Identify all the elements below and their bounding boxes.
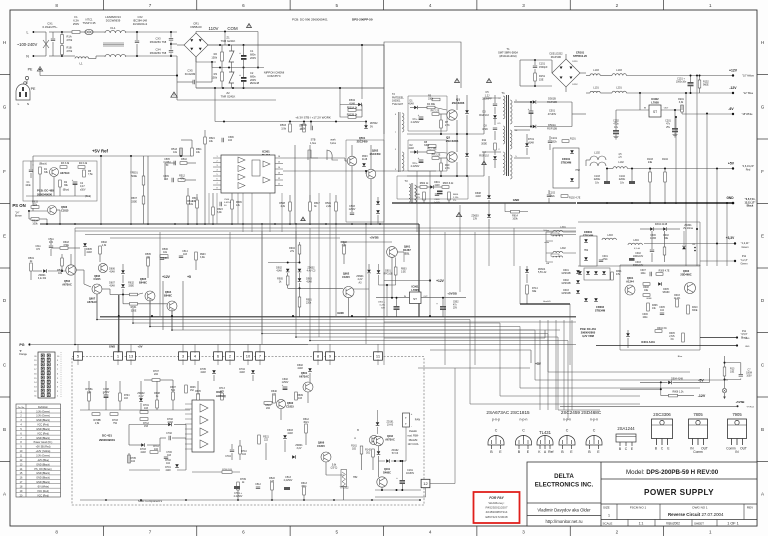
wire: [631, 169, 633, 182]
junction: [211, 61, 213, 63]
winding: [510, 100, 512, 124]
wire: [213, 166, 221, 168]
svg-text:500E: 500E: [131, 175, 137, 178]
junction: [724, 379, 726, 381]
wire: [361, 454, 363, 470]
svg-text:103: 103: [298, 397, 303, 400]
route wire: [520, 387, 700, 389]
svg-text:D95B-60: D95B-60: [190, 25, 201, 29]
connector pin box 6: [214, 352, 223, 360]
transistor: [66, 265, 76, 275]
title block outline: [527, 462, 757, 526]
triangle: [263, 177, 270, 183]
svg-text:RGP10J: RGP10J: [479, 114, 489, 117]
junction: [185, 499, 187, 501]
svg-text:5: 5: [336, 3, 339, 8]
connector pin: [41, 358, 44, 361]
svg-text:D305: D305: [663, 289, 669, 291]
svg-text:LM339Q: LM339Q: [216, 395, 226, 398]
svg-text:NTC1: NTC1: [85, 18, 93, 22]
wire vertical rail: [675, 117, 677, 203]
svg-text:472k: 472k: [603, 259, 609, 261]
svg-text:4148: 4148: [140, 451, 146, 454]
wire: [61, 44, 63, 46]
wire: [172, 437, 186, 439]
svg-text:10E: 10E: [644, 290, 649, 292]
junction: [204, 223, 206, 225]
resistor: [656, 273, 663, 276]
junction: [534, 59, 536, 61]
wire: [345, 121, 366, 123]
wire: [514, 157, 530, 159]
wire +12V rail: [626, 75, 733, 77]
wire +5V rail: [627, 168, 733, 170]
resistor: [681, 105, 684, 112]
wire: [61, 266, 63, 271]
resistor: [420, 186, 427, 189]
svg-text:IC901: IC901: [216, 391, 223, 394]
table row line: [16, 421, 61, 423]
transistor: [387, 247, 398, 258]
wire: [348, 298, 350, 317]
svg-text:104k: 104k: [25, 184, 31, 187]
resistor: [88, 393, 91, 401]
title block divider: [527, 502, 601, 504]
svg-text:"18"White: "18"White: [742, 113, 754, 116]
wire down: [386, 285, 388, 316]
title cell divider: [627, 520, 629, 527]
capacitor: [419, 116, 424, 118]
wire from pin box: [377, 359, 379, 365]
vertical wire: [261, 224, 263, 344]
wire: [45, 32, 47, 56]
connector pin: [41, 372, 44, 375]
resistor: [83, 170, 86, 177]
svg-text:GPR10B: GPR10B: [561, 283, 571, 285]
wire: [537, 101, 572, 103]
wire from pin box: [229, 359, 231, 365]
svg-text:Q901: Q901: [404, 245, 411, 249]
svg-text:D252: D252: [572, 84, 578, 86]
junction: [365, 170, 367, 172]
resistor: [343, 246, 346, 254]
svg-text:D301: D301: [563, 270, 569, 272]
svg-text:C307: C307: [640, 270, 646, 272]
wire: [283, 157, 345, 159]
svg-text:Visio2002: Visio2002: [666, 521, 680, 525]
svg-text:R706 103: R706 103: [222, 469, 232, 471]
table column divider: [25, 404, 27, 497]
wire: [435, 152, 447, 153]
svg-text:2: 2: [616, 530, 619, 535]
svg-text:C702: C702: [166, 432, 172, 435]
resistor: [142, 176, 145, 185]
svg-text:TNR G241K: TNR G241K: [221, 95, 236, 99]
svg-text:2: 2: [216, 161, 217, 163]
frame tick left: [0, 267, 10, 269]
resistor: [526, 285, 529, 294]
wire N to L1: [62, 55, 75, 57]
wire: [397, 176, 468, 199]
diode: [283, 435, 287, 438]
connector pin: [47, 380, 50, 383]
svg-text:R1A: R1A: [67, 35, 72, 39]
junction: [442, 297, 444, 299]
title cell divider: [616, 504, 618, 520]
wire: [392, 223, 419, 225]
svg-text:4148: 4148: [109, 271, 115, 274]
svg-text:C1815: C1815: [93, 278, 101, 281]
wire: [231, 193, 233, 200]
resistor: [511, 210, 520, 213]
resistor: [273, 395, 276, 403]
svg-text:6,3A: 6,3A: [73, 19, 79, 23]
TL494 pin wire: [208, 193, 210, 224]
junction: [381, 489, 383, 491]
wire: [384, 42, 461, 88]
wire: [303, 495, 305, 500]
wire: [170, 54, 172, 57]
wire: [213, 180, 221, 182]
capacitor: [493, 128, 497, 130]
junction: [365, 223, 367, 225]
svg-text:150k: 150k: [211, 75, 217, 79]
svg-text:R2: R2: [214, 52, 218, 56]
svg-text:TVE 0227: TVE 0227: [392, 103, 404, 106]
junction on GND bus: [706, 202, 708, 204]
svg-text:4148: 4148: [200, 371, 206, 374]
connector pin box 9: [326, 352, 335, 360]
wire: [52, 32, 54, 38]
connector pin: [41, 389, 44, 392]
junction: [243, 44, 245, 46]
svg-text:4148: 4148: [109, 285, 115, 288]
junction: [289, 121, 291, 123]
diode: [487, 195, 491, 198]
capacitor: [29, 170, 33, 172]
wire up to +5V route: [454, 368, 456, 484]
wire: [627, 330, 629, 333]
frame tick left: [0, 74, 10, 76]
svg-text:150E: 150E: [415, 194, 421, 196]
wire: [123, 294, 130, 296]
svg-text:R3: R3: [214, 72, 218, 76]
table row line: [16, 430, 61, 432]
junction: [690, 75, 692, 77]
junction: [361, 44, 363, 46]
svg-text:COM: COM: [227, 26, 238, 31]
svg-text:L103: L103: [616, 69, 622, 72]
junction on GND bus: [606, 202, 608, 204]
wire after FL1 top: [125, 31, 148, 33]
wire: [212, 215, 214, 224]
wire: [243, 60, 245, 68]
resistor: [160, 255, 168, 258]
wire: [215, 121, 345, 123]
wire from pin box: [130, 359, 132, 365]
frame tick right: [757, 461, 768, 463]
svg-text:G: G: [761, 104, 765, 109]
wire return path: [177, 99, 276, 101]
svg-text:13V: 13V: [473, 218, 478, 221]
vertical wire: [513, 228, 515, 266]
svg-text:R302: R302: [663, 235, 669, 237]
op-amp triangle: [200, 416, 208, 424]
svg-text:104: 104: [228, 139, 233, 142]
vertical wire: [269, 193, 271, 232]
wire: [143, 156, 145, 176]
wire: [494, 131, 496, 140]
junction: [734, 242, 736, 244]
wire COM tap: [257, 32, 259, 68]
subcircuit box: [346, 140, 384, 222]
wire: [530, 350, 532, 363]
wire: [280, 409, 282, 420]
wire: [61, 254, 63, 258]
svg-text:R606: R606: [190, 387, 196, 389]
wire: [122, 289, 124, 295]
resistor: [239, 446, 242, 454]
wire: [39, 218, 47, 220]
junction: [400, 460, 402, 462]
svg-text:C301: C301: [602, 256, 608, 258]
resistor: [221, 72, 224, 81]
svg-text:1:1: 1:1: [639, 521, 644, 525]
junction: [649, 168, 651, 170]
wire: [526, 294, 528, 304]
wire: [586, 159, 590, 161]
wire: [378, 461, 380, 477]
wire: [410, 107, 414, 109]
svg-text:0.33uF275~: 0.33uF275~: [42, 25, 57, 29]
svg-text:+5: +5: [187, 275, 191, 279]
junction: [371, 499, 373, 501]
wire: [52, 42, 54, 56]
capacitor: [222, 138, 224, 142]
svg-text:0,47x: 0,47x: [380, 305, 386, 307]
svg-text:Q502: Q502: [372, 149, 379, 153]
svg-text:C1: C1: [250, 49, 254, 53]
svg-text:5: 5: [336, 530, 339, 535]
wire: [700, 260, 735, 262]
svg-text:Ref: Ref: [548, 450, 553, 454]
wire: [156, 381, 158, 400]
svg-text:Orange: Orange: [19, 353, 28, 356]
wire: [83, 270, 85, 284]
diode: [367, 270, 371, 273]
svg-text:R452920110207: R452920110207: [486, 506, 508, 510]
svg-text:7,5k: 7,5k: [88, 173, 93, 176]
wire: [59, 187, 61, 196]
resistor: [562, 140, 569, 143]
svg-text:E: E: [761, 233, 764, 238]
ribbon wire: [133, 322, 500, 324]
wire: [243, 68, 245, 78]
connector pin box 10: [244, 352, 253, 360]
warning triangle: [456, 213, 461, 217]
earth sym: [722, 388, 726, 392]
junction: [214, 87, 216, 89]
svg-text:103M: 103M: [650, 238, 656, 240]
wire: [213, 157, 221, 159]
wire: [177, 44, 184, 46]
junction: [310, 121, 312, 123]
svg-text:Comm: Comm: [693, 450, 703, 454]
junction: [335, 223, 337, 225]
wire: [667, 228, 680, 230]
diode: [121, 270, 125, 273]
svg-text:C1815: C1815: [61, 209, 69, 212]
junction: [122, 294, 124, 296]
wire: [434, 186, 442, 188]
inductor: [75, 57, 89, 59]
vertical route wire: [571, 320, 573, 410]
svg-text:A1244: A1244: [626, 279, 634, 283]
svg-text:Q302: Q302: [683, 269, 690, 273]
svg-text:752: 752: [113, 422, 118, 425]
svg-text:C1815: C1815: [317, 444, 325, 448]
svg-text:4148: 4148: [475, 195, 481, 198]
svg-text:KC222M: KC222M: [185, 72, 196, 76]
wire: [299, 307, 301, 317]
vertical route wire: [547, 320, 549, 410]
wire: [129, 469, 160, 471]
wire: [231, 62, 233, 68]
wire: [287, 273, 289, 276]
svg-text:DWG NO 1: DWG NO 1: [692, 505, 707, 509]
package 2SA673AC: [488, 436, 504, 446]
junction: [660, 381, 662, 383]
svg-text:PCB: DC-996 2960065401: PCB: DC-996 2960065401: [292, 18, 328, 22]
svg-text:C901 +: C901 +: [378, 302, 386, 304]
wire: [361, 105, 363, 118]
svg-text:D302: D302: [563, 280, 569, 282]
wire: [456, 95, 458, 110]
connector pin: [41, 367, 44, 370]
wire: [351, 145, 353, 156]
svg-text:C: C: [495, 429, 498, 433]
junction: [299, 262, 301, 264]
pin definition table: [16, 404, 61, 497]
svg-text:L303: L303: [607, 234, 613, 237]
wire: [213, 375, 215, 381]
connector pin box 7: [256, 352, 265, 360]
junction: [732, 202, 735, 205]
wire: [401, 484, 403, 490]
wire: [520, 211, 529, 213]
wire: [442, 310, 444, 317]
ribbon wire: [75, 344, 576, 346]
wire: [383, 176, 385, 316]
route bend vertical: [567, 341, 569, 421]
svg-text:GND: GND: [745, 338, 750, 340]
wire: [213, 175, 221, 177]
svg-text:R604: R604: [453, 194, 459, 196]
diode: [487, 214, 491, 217]
LM339 pin stub: [185, 438, 192, 440]
wire vertical rail: [685, 93, 687, 266]
wire: [544, 330, 546, 338]
wire: [484, 151, 501, 153]
svg-text:"12" Blue: "12" Blue: [743, 92, 754, 95]
svg-text:40/100/21x2: 40/100/21x2: [133, 22, 148, 26]
wire: [105, 381, 107, 395]
diode: [658, 282, 661, 286]
diode: [376, 422, 380, 425]
svg-text:"10"Yellow: "10"Yellow: [742, 75, 754, 78]
resistor: [180, 148, 183, 156]
svg-text:(Black): (Black): [39, 163, 47, 166]
wire: [546, 231, 553, 233]
svg-text:10: 10: [246, 354, 251, 359]
wire: [129, 424, 168, 426]
LM339 pin stub: [185, 413, 192, 415]
wire: [488, 200, 490, 203]
capacitor: [599, 260, 603, 262]
GND bus center: [392, 202, 576, 204]
connector pin box 8: [314, 352, 323, 360]
wire: [57, 209, 61, 211]
wire: [30, 271, 32, 280]
connector pin: [41, 394, 44, 397]
T1 core: [507, 95, 509, 176]
svg-text:2.2x50V: 2.2x50V: [411, 165, 420, 168]
svg-text:R305: R305: [669, 333, 675, 335]
svg-text:R713: R713: [219, 388, 225, 390]
capacitor: [739, 375, 743, 377]
ribbon wire: [172, 329, 535, 331]
diode: [650, 227, 653, 231]
wire: [138, 293, 144, 295]
inductor: [553, 251, 563, 253]
resistor: [423, 192, 426, 200]
wire to pin box: [317, 344, 319, 353]
wire: [299, 283, 301, 297]
svg-text:PE: PE: [28, 68, 33, 72]
T1 core: [506, 95, 508, 176]
junction: [664, 168, 666, 170]
resistor: [305, 424, 308, 433]
wire L: [49, 31, 62, 33]
vertical wire: [74, 228, 76, 344]
svg-text:15E: 15E: [539, 78, 544, 81]
wire: [326, 474, 344, 476]
frame tick right: [757, 74, 768, 76]
frame tick bottom: [383, 526, 385, 536]
svg-text:3,2v R2: 3,2v R2: [38, 277, 47, 280]
vertical wire: [130, 156, 132, 224]
wire: [35, 31, 46, 33]
resistor: [309, 202, 312, 211]
diode: [386, 459, 389, 463]
resistor: [110, 413, 118, 416]
IC501 body: [221, 155, 275, 193]
wire: [356, 109, 362, 111]
svg-text:+: +: [239, 73, 241, 77]
resistor: [432, 98, 440, 101]
wire from pin box: [317, 359, 319, 365]
svg-text:T1: T1: [506, 47, 510, 51]
diode: [570, 178, 574, 181]
svg-text:L302: L302: [560, 247, 566, 250]
ATX connector header: [38, 352, 55, 398]
svg-text:ELECTRONICS INC.: ELECTRONICS INC.: [535, 482, 594, 489]
wire: [466, 158, 468, 176]
wire: [62, 31, 72, 33]
wire from pin box: [194, 359, 196, 365]
wire: [275, 163, 283, 165]
wire: [442, 298, 444, 306]
